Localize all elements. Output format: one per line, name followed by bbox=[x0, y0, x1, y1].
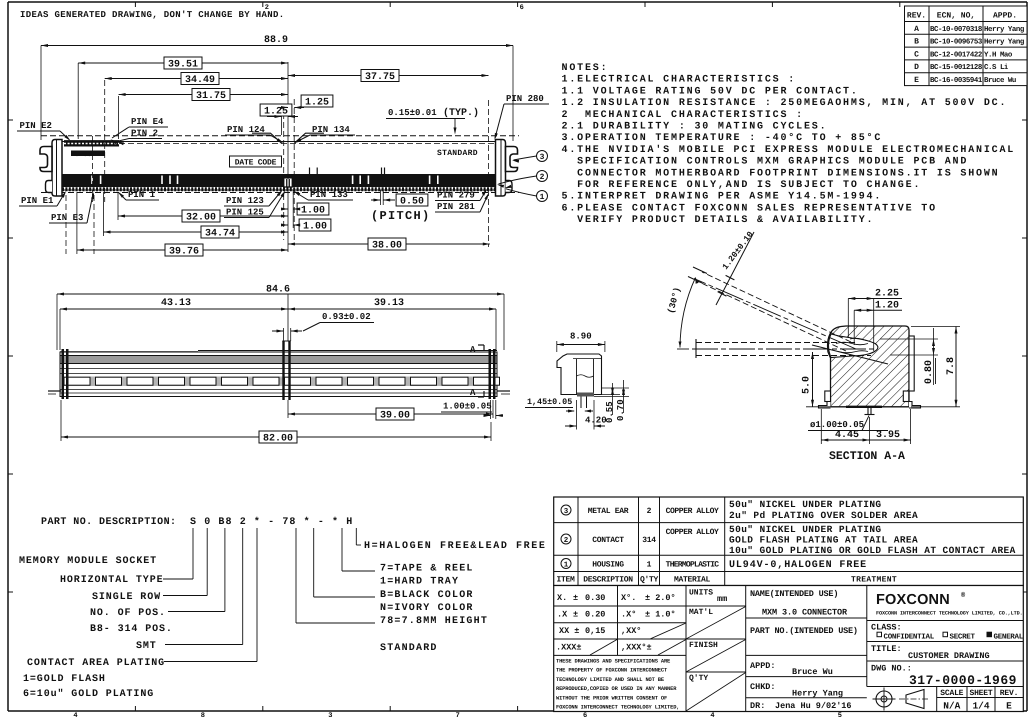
svg-text:FINISH: FINISH bbox=[689, 641, 718, 650]
svg-text:4: 4 bbox=[73, 712, 77, 717]
svg-text:Y.H Mao: Y.H Mao bbox=[984, 51, 1013, 59]
svg-text:314: 314 bbox=[642, 536, 656, 545]
svg-text:THESE DRAWINGS AND SPECIFICATI: THESE DRAWINGS AND SPECIFICATIONS ARE bbox=[556, 659, 671, 665]
projection symbols bbox=[876, 691, 892, 707]
end view: dim 0.70 bbox=[594, 396, 629, 398]
svg-text:ECN, NO,: ECN, NO, bbox=[937, 12, 975, 21]
svg-text:NOTES:: NOTES: bbox=[562, 63, 609, 74]
svg-text:ITEM: ITEM bbox=[556, 576, 575, 585]
svg-text:PIN E1: PIN E1 bbox=[21, 196, 54, 206]
svg-text:88.9: 88.9 bbox=[264, 35, 288, 46]
top view: dim 32.00 bbox=[117, 192, 119, 220]
svg-text:CONNECTOR MOTHERBOARD FOOTPRIN: CONNECTOR MOTHERBOARD FOOTPRINT DIMENSIO… bbox=[562, 168, 1000, 179]
svg-text:SCALE: SCALE bbox=[940, 689, 963, 698]
svg-text:SINGLE ROW: SINGLE ROW bbox=[92, 592, 161, 603]
svg-text:2.25: 2.25 bbox=[875, 289, 899, 300]
svg-text:GENERAL: GENERAL bbox=[994, 633, 1024, 642]
title block bbox=[554, 586, 1024, 712]
top view: dim 1.25 left bbox=[260, 104, 292, 116]
top view: connector body outline bbox=[62, 142, 496, 191]
svg-text:± 2.0°: ± 2.0° bbox=[645, 593, 676, 603]
section A-A: center solder pin bbox=[867, 407, 869, 415]
svg-text:37.75: 37.75 bbox=[365, 72, 395, 83]
svg-text:THERMOPLASTIC: THERMOPLASTIC bbox=[666, 561, 720, 570]
svg-text:MXM 3.0 CONNECTOR: MXM 3.0 CONNECTOR bbox=[762, 608, 848, 618]
svg-text:DATE CODE: DATE CODE bbox=[235, 159, 277, 168]
part legend leader: height bbox=[295, 528, 297, 623]
svg-text:HOUSING: HOUSING bbox=[592, 561, 624, 570]
svg-text:6: 6 bbox=[583, 712, 587, 717]
svg-text:PART NO.(INTENDED USE): PART NO.(INTENDED USE) bbox=[750, 626, 858, 636]
top view: dim 88.9 bbox=[40, 46, 42, 141]
svg-text:2: 2 bbox=[540, 173, 545, 182]
svg-text:FOXCONN: FOXCONN bbox=[876, 592, 950, 608]
svg-text:2: 2 bbox=[647, 507, 652, 516]
svg-text:Herry Yang: Herry Yang bbox=[984, 26, 1025, 34]
section A-A: dim 3.95 bbox=[910, 409, 912, 444]
svg-text:COPPER ALLOY: COPPER ALLOY bbox=[666, 528, 719, 537]
svg-text:1.00±0.05: 1.00±0.05 bbox=[443, 402, 492, 412]
svg-text:4.20: 4.20 bbox=[585, 416, 607, 426]
svg-text:3.95: 3.95 bbox=[876, 430, 900, 441]
svg-text:PIN 2: PIN 2 bbox=[131, 129, 158, 139]
section A-A: left foot bbox=[825, 391, 831, 402]
svg-text:IDEAS GENERATED DRAWING, DON'T: IDEAS GENERATED DRAWING, DON'T CHANGE BY… bbox=[20, 10, 285, 20]
units/matl/finish/qty column bbox=[745, 586, 747, 712]
section A-A: dim 2.25 bbox=[847, 299, 849, 339]
top view: centerline and dashed offsets bbox=[287, 62, 289, 252]
svg-text:Bruce Wu: Bruce Wu bbox=[984, 77, 1016, 85]
front view: top gray band bbox=[60, 356, 497, 364]
svg-text:50u" NICKEL UNDER PLATING: 50u" NICKEL UNDER PLATING bbox=[729, 499, 882, 510]
svg-text:CONFIDENTIAL: CONFIDENTIAL bbox=[884, 633, 935, 642]
svg-text:78=7.8MM HEIGHT: 78=7.8MM HEIGHT bbox=[380, 616, 488, 627]
svg-text:7: 7 bbox=[456, 712, 460, 717]
svg-text:2.1 DURABILITY : 30 MATING CYC: 2.1 DURABILITY : 30 MATING CYCLES. bbox=[562, 122, 828, 133]
svg-text:2: 2 bbox=[564, 536, 569, 545]
svg-text:mm: mm bbox=[717, 594, 727, 604]
svg-text:1: 1 bbox=[540, 193, 545, 202]
svg-text:BC-12-0017422: BC-12-0017422 bbox=[930, 51, 982, 59]
name / part no / appd cells bbox=[866, 586, 868, 687]
svg-text:REV.: REV. bbox=[907, 12, 926, 21]
svg-text:MEMORY MODULE SOCKET: MEMORY MODULE SOCKET bbox=[19, 556, 157, 567]
top view: dim 34.49 bbox=[105, 78, 288, 80]
svg-text:DWG NO.:: DWG NO.: bbox=[871, 664, 912, 674]
svg-text:3.OPERATION TEMPERATURE : -40°: 3.OPERATION TEMPERATURE : -40°C TO + 85°… bbox=[562, 133, 883, 144]
top view: lower dim 1.00 first bbox=[297, 203, 329, 215]
svg-text:WITHOUT THE PRIOR WRITTEN CONS: WITHOUT THE PRIOR WRITTEN CONSENT OF bbox=[556, 695, 667, 701]
front view: solder tails bbox=[48, 390, 61, 392]
svg-text:S 0 B8 2 * - 78 * - * H: S 0 B8 2 * - 78 * - * H bbox=[190, 516, 353, 528]
svg-text:3: 3 bbox=[328, 712, 332, 717]
svg-text:B8- 314 POS.: B8- 314 POS. bbox=[90, 624, 173, 635]
svg-text:SHEET: SHEET bbox=[969, 689, 992, 698]
svg-text:REV.: REV. bbox=[1000, 689, 1018, 698]
svg-text:.XXX±: .XXX± bbox=[556, 643, 582, 653]
svg-text:HORIZONTAL TYPE: HORIZONTAL TYPE bbox=[60, 575, 164, 586]
material table bbox=[554, 497, 1024, 586]
section A-A: right ear flange bbox=[909, 336, 914, 391]
top view: lower dim 1.00 second bbox=[299, 219, 331, 231]
top view: center key notch bbox=[284, 179, 292, 188]
top view: dim 1.25 right bbox=[301, 95, 333, 107]
top view: hidden PCB dashed lines bbox=[41, 135, 519, 137]
svg-text:TREATMENT: TREATMENT bbox=[851, 576, 897, 585]
front view: right end post bbox=[489, 349, 492, 399]
svg-text:E: E bbox=[1006, 701, 1012, 712]
svg-text:PIN E2: PIN E2 bbox=[20, 121, 52, 131]
svg-text:1.25: 1.25 bbox=[305, 97, 329, 108]
svg-text:1,45±0.05: 1,45±0.05 bbox=[527, 397, 572, 407]
svg-text:39.51: 39.51 bbox=[168, 59, 198, 70]
svg-text:VERIFY PRODUCT DETAILS & AVAIL: VERIFY PRODUCT DETAILS & AVAILABILITY. bbox=[562, 215, 875, 226]
front view: dim 39.00 bbox=[287, 400, 289, 418]
svg-text:0.50: 0.50 bbox=[400, 196, 424, 207]
svg-text:ø1.00±0.05: ø1.00±0.05 bbox=[810, 420, 864, 430]
front view: center key post bbox=[282, 341, 284, 400]
svg-text:39.00: 39.00 bbox=[380, 410, 410, 421]
svg-text:BC-16-0035941: BC-16-0035941 bbox=[930, 77, 983, 85]
front view: dim 39.13 bbox=[495, 309, 497, 350]
svg-text:UNITS: UNITS bbox=[689, 589, 713, 598]
front view: window strip bbox=[62, 377, 495, 387]
part legend leader: H bbox=[355, 528, 357, 545]
part legend leader: packing bbox=[341, 528, 343, 571]
svg-text:C: C bbox=[914, 50, 919, 59]
top view: right metal ear bbox=[496, 140, 506, 197]
svg-text:A: A bbox=[470, 388, 476, 398]
section A-A: hatched body bbox=[828, 326, 909, 407]
svg-text:1.ELECTRICAL CHARACTERISTICS :: 1.ELECTRICAL CHARACTERISTICS : bbox=[562, 75, 797, 86]
section A-A: 30 deg arc bbox=[680, 278, 696, 348]
svg-text:PIN 124: PIN 124 bbox=[227, 125, 265, 135]
section A-A: seated card solid line bbox=[812, 345, 888, 364]
section A-A: horizontal card dashed bbox=[696, 342, 857, 344]
svg-text:,XXX°±: ,XXX°± bbox=[621, 643, 652, 653]
end view: dim 4.20 bbox=[576, 400, 578, 430]
svg-text:NO. OF POS.: NO. OF POS. bbox=[90, 608, 166, 619]
svg-text:1.2 INSULATION RESISTANCE : 25: 1.2 INSULATION RESISTANCE : 250MEGAOHMS,… bbox=[562, 98, 1008, 109]
svg-text:Herry Yang: Herry Yang bbox=[984, 39, 1025, 47]
svg-text:PIN 134: PIN 134 bbox=[312, 125, 350, 135]
svg-text:0,15: 0,15 bbox=[585, 626, 605, 636]
svg-text:34.74: 34.74 bbox=[205, 228, 235, 239]
svg-text:31.75: 31.75 bbox=[196, 91, 226, 102]
svg-text:GOLD FLASH PLATING AT TAIL ARE: GOLD FLASH PLATING AT TAIL AREA bbox=[729, 535, 918, 546]
svg-text:1.00: 1.00 bbox=[301, 205, 325, 216]
svg-text:38.00: 38.00 bbox=[372, 240, 402, 251]
end view: dim 0.55 bbox=[602, 394, 621, 396]
svg-text:B: B bbox=[914, 38, 919, 47]
svg-text:PIN 1: PIN 1 bbox=[128, 190, 156, 200]
svg-text:1.20: 1.20 bbox=[875, 301, 899, 312]
svg-text:±: ± bbox=[573, 610, 578, 620]
svg-text:XX ±: XX ± bbox=[559, 626, 579, 636]
svg-text:Herry Yang: Herry Yang bbox=[792, 689, 843, 699]
svg-text:PIN E4: PIN E4 bbox=[131, 117, 164, 127]
top view: callout balloon 2 bbox=[537, 171, 548, 182]
svg-text:E: E bbox=[914, 76, 919, 85]
svg-text:34.49: 34.49 bbox=[185, 75, 215, 86]
svg-text:1.1 VOLTAGE RATING 50V DC PER: 1.1 VOLTAGE RATING 50V DC PER CONTACT. bbox=[562, 86, 859, 97]
svg-text:43.13: 43.13 bbox=[161, 298, 191, 309]
svg-text:CLASS:: CLASS: bbox=[871, 623, 902, 633]
top view: pin group ticks above band bbox=[309, 168, 311, 175]
section A-A: dim 0.80 bbox=[880, 338, 938, 340]
svg-text:6.PLEASE CONTACT FOXCONN SALES: 6.PLEASE CONTACT FOXCONN SALES REPRESENT… bbox=[562, 203, 937, 214]
scale sheet rev cells bbox=[936, 687, 938, 712]
svg-text:THE PROPERTY OF FOXCONN INTERC: THE PROPERTY OF FOXCONN INTERCONNECT bbox=[556, 668, 668, 674]
svg-text:BC-10-0096753: BC-10-0096753 bbox=[930, 39, 983, 47]
svg-text:N/A: N/A bbox=[943, 701, 960, 712]
svg-text:0.93±0.02: 0.93±0.02 bbox=[322, 312, 371, 322]
svg-text:1=HARD TRAY: 1=HARD TRAY bbox=[380, 577, 459, 588]
svg-text:B=BLACK COLOR: B=BLACK COLOR bbox=[380, 590, 474, 601]
section A-A: tilted card dashed bbox=[702, 272, 851, 342]
section A-A: dim 7.8 bbox=[911, 326, 960, 328]
svg-text:FOXCONN INTERCONNECT TECHNOLOG: FOXCONN INTERCONNECT TECHNOLOGY LIMITED, bbox=[556, 705, 679, 711]
top view: dim 38.00 bbox=[288, 243, 490, 245]
section A-A: bottom solder line bbox=[846, 406, 882, 408]
svg-text:APPD:: APPD: bbox=[750, 661, 776, 671]
svg-text:0.70: 0.70 bbox=[616, 399, 626, 421]
svg-text:317-0000-1969: 317-0000-1969 bbox=[909, 673, 1017, 688]
section A-A: dim 4.45 bbox=[820, 409, 822, 444]
svg-text:COPPER ALLOY: COPPER ALLOY bbox=[666, 507, 719, 516]
svg-text:0.80: 0.80 bbox=[924, 360, 935, 384]
svg-text:PIN 123: PIN 123 bbox=[226, 196, 264, 206]
section A-A: tilted card dim 1.20 bbox=[693, 267, 707, 274]
top view: left metal ear bbox=[52, 140, 62, 197]
svg-text:8: 8 bbox=[201, 712, 205, 717]
svg-text:BC-10-0070318: BC-10-0070318 bbox=[930, 26, 983, 34]
top view: DATE CODE box bbox=[230, 156, 282, 167]
end view: body outline bbox=[557, 354, 602, 395]
front view: dim 43.13 bbox=[59, 309, 61, 350]
top view: dim 39.76 bbox=[76, 192, 78, 254]
svg-text:APPD.: APPD. bbox=[993, 12, 1017, 21]
svg-text:Jena Hu 9/02'16: Jena Hu 9/02'16 bbox=[775, 701, 852, 711]
svg-text:1: 1 bbox=[564, 561, 569, 569]
svg-text:A: A bbox=[914, 25, 919, 34]
svg-text:STANDARD: STANDARD bbox=[380, 643, 438, 654]
top view: contact teeth fringe bbox=[62, 187, 496, 191]
svg-text:0.55: 0.55 bbox=[605, 401, 615, 423]
svg-text:5.INTERPRET DRAWING PER ASME Y: 5.INTERPRET DRAWING PER ASME Y14.5M-1994… bbox=[562, 192, 883, 203]
svg-text:7.8: 7.8 bbox=[946, 357, 957, 375]
end view: bottom pins bbox=[580, 397, 582, 409]
svg-text:32.00: 32.00 bbox=[186, 212, 216, 223]
svg-text:X.: X. bbox=[557, 593, 567, 603]
section A-A: card slot cavity bbox=[829, 334, 878, 358]
top view: center entry funnels bbox=[252, 133, 282, 143]
svg-text:MATERIAL: MATERIAL bbox=[674, 576, 711, 585]
svg-text:.X: .X bbox=[557, 610, 568, 620]
svg-text:PIN 280: PIN 280 bbox=[506, 94, 544, 104]
svg-text:Bruce Wu: Bruce Wu bbox=[792, 667, 833, 677]
svg-text:39.76: 39.76 bbox=[169, 246, 199, 257]
svg-text:8.90: 8.90 bbox=[570, 332, 592, 342]
svg-text:STANDARD: STANDARD bbox=[437, 149, 478, 158]
svg-text:CUSTOMER DRAWING: CUSTOMER DRAWING bbox=[908, 651, 990, 661]
svg-text:PIN 133: PIN 133 bbox=[310, 190, 348, 200]
front view: body outline bbox=[60, 352, 497, 397]
svg-text:SPECIFICATION CONTROLS MXM GRA: SPECIFICATION CONTROLS MXM GRAPHICS MODU… bbox=[562, 157, 969, 168]
svg-text:0.15±0.01: 0.15±0.01 bbox=[388, 108, 437, 118]
svg-text:PART NO. DESCRIPTION:: PART NO. DESCRIPTION: bbox=[41, 517, 176, 528]
top view: contact band bbox=[62, 174, 496, 187]
svg-text:D: D bbox=[914, 63, 919, 72]
svg-text:PIN E3: PIN E3 bbox=[51, 213, 83, 223]
front view: dim 84.6 bbox=[56, 294, 58, 350]
sheet border frame bbox=[8, 1, 1027, 3]
section A-A: right foot bbox=[903, 391, 909, 402]
svg-text:A: A bbox=[470, 345, 476, 355]
top view: dim 0.50 pitch bbox=[380, 190, 382, 205]
svg-text:SMT: SMT bbox=[136, 641, 157, 652]
end view: dim 8.90 bbox=[556, 341, 558, 352]
svg-text:1.00: 1.00 bbox=[303, 221, 327, 232]
svg-text:2u" Pd PLATING OVER SOLDER AR: 2u" Pd PLATING OVER SOLDER AREA bbox=[729, 510, 918, 521]
svg-text:,XX°: ,XX° bbox=[621, 626, 641, 636]
svg-text:0.20: 0.20 bbox=[585, 610, 605, 620]
part legend leader: color bbox=[313, 528, 315, 597]
svg-text:MAT'L: MAT'L bbox=[689, 608, 713, 617]
svg-text:84.6: 84.6 bbox=[266, 285, 290, 296]
top view: dim 31.75 bbox=[118, 96, 120, 139]
top view: dim 34.74 bbox=[103, 192, 105, 236]
top view: dim 37.75 bbox=[288, 75, 489, 77]
section A-A: dim 1.20 bbox=[853, 310, 855, 345]
svg-text:6=10u" GOLD PLATING: 6=10u" GOLD PLATING bbox=[23, 688, 154, 700]
svg-text:SECTION A-A: SECTION A-A bbox=[829, 450, 905, 463]
svg-text:FOR REFERENCE ONLY,AND IS SUBJ: FOR REFERENCE ONLY,AND IS SUBJECT TO CHA… bbox=[562, 180, 922, 191]
svg-text:PIN 281: PIN 281 bbox=[437, 202, 475, 212]
svg-text:1=GOLD FLASH: 1=GOLD FLASH bbox=[23, 674, 106, 685]
svg-text:Q'TY: Q'TY bbox=[689, 674, 708, 683]
svg-text:CONTACT AREA PLATING: CONTACT AREA PLATING bbox=[27, 658, 165, 669]
svg-text:Q'TY: Q'TY bbox=[640, 576, 659, 585]
top view: callout balloon 3 bbox=[537, 151, 548, 162]
revision table bbox=[905, 6, 1028, 86]
svg-text:REPRODUCED,COPIED OR USED IN A: REPRODUCED,COPIED OR USED IN ANY MANNER bbox=[556, 686, 677, 692]
svg-text:NAME(INTENDED USE): NAME(INTENDED USE) bbox=[750, 589, 838, 599]
svg-text:4: 4 bbox=[710, 712, 714, 717]
front view: dim 82.00 bbox=[60, 400, 62, 441]
svg-text:(TYP.): (TYP.) bbox=[443, 107, 479, 119]
svg-text:DR:: DR: bbox=[750, 701, 765, 711]
svg-text:39.13: 39.13 bbox=[374, 298, 404, 309]
svg-text:10u" GOLD PLATING OR GOLD FLAS: 10u" GOLD PLATING OR GOLD FLASH AT CONTA… bbox=[729, 545, 1016, 556]
svg-text:BC-15-0012128: BC-15-0012128 bbox=[930, 64, 983, 72]
svg-text:6: 6 bbox=[520, 4, 524, 12]
svg-text:CONTACT: CONTACT bbox=[592, 536, 624, 545]
svg-text:TECHNOLOGY LIMITED AND SHALL N: TECHNOLOGY LIMITED AND SHALL NOT BE bbox=[556, 677, 665, 683]
svg-text:1: 1 bbox=[647, 561, 652, 570]
svg-text:TITLE:: TITLE: bbox=[871, 644, 902, 654]
svg-text:SECRET: SECRET bbox=[950, 633, 976, 642]
svg-text:C.S Li: C.S Li bbox=[984, 63, 1009, 72]
svg-text:2 MECHANICAL CHARACTERISTICS: 2 MECHANICAL CHARACTERISTICS : bbox=[562, 110, 804, 121]
top view: callout balloon 1 bbox=[537, 191, 548, 202]
top view: dim 39.51 bbox=[77, 63, 79, 139]
svg-text:±: ± bbox=[573, 593, 578, 603]
svg-text:7=TAPE & REEL: 7=TAPE & REEL bbox=[380, 564, 474, 575]
svg-text:3: 3 bbox=[540, 153, 545, 162]
svg-text:± 1.0°: ± 1.0° bbox=[645, 610, 676, 620]
svg-text:.X°: .X° bbox=[621, 610, 636, 620]
svg-text:PIN 279: PIN 279 bbox=[437, 191, 475, 201]
svg-text:0.30: 0.30 bbox=[585, 593, 605, 603]
svg-text:FOXCONN INTERCONNECT TECHNOLOG: FOXCONN INTERCONNECT TECHNOLOGY LIMITED,… bbox=[876, 611, 1023, 617]
section A-A: contact bumps in slot bbox=[836, 342, 868, 345]
svg-text:UL94V-0,HALOGEN FREE: UL94V-0,HALOGEN FREE bbox=[729, 560, 867, 571]
svg-text:H=HALOGEN FREE&LEAD FREE: H=HALOGEN FREE&LEAD FREE bbox=[364, 541, 546, 552]
svg-text:DESCRIPTION: DESCRIPTION bbox=[583, 576, 633, 585]
svg-text:3: 3 bbox=[564, 507, 569, 516]
front view: left end post bbox=[62, 349, 65, 399]
svg-text:N=IVORY COLOR: N=IVORY COLOR bbox=[380, 603, 474, 614]
svg-text:(PITCH): (PITCH) bbox=[371, 209, 431, 223]
svg-text:METAL EAR: METAL EAR bbox=[588, 507, 629, 516]
tolerance grid bbox=[554, 605, 686, 607]
svg-text:4.45: 4.45 bbox=[835, 430, 859, 441]
svg-text:5: 5 bbox=[838, 712, 842, 717]
svg-text:X°.: X°. bbox=[621, 593, 636, 603]
svg-text:CHKD:: CHKD: bbox=[750, 682, 776, 692]
svg-text:4.THE NVIDIA'S MOBILE PCI EXPR: 4.THE NVIDIA'S MOBILE PCI EXPRESS MODULE… bbox=[562, 144, 1016, 156]
svg-text:50u" NICKEL UNDER PLATING: 50u" NICKEL UNDER PLATING bbox=[729, 524, 882, 535]
top view: E-pin extension stubs bbox=[65, 195, 67, 254]
svg-text:1/4: 1/4 bbox=[972, 701, 989, 712]
top view: band white separators bbox=[91, 176, 93, 185]
svg-text:5.0: 5.0 bbox=[802, 376, 813, 394]
top view: E-pin comb strip bbox=[64, 141, 119, 147]
section A-A: dim 5.0 bbox=[806, 406, 831, 408]
svg-text:82.00: 82.00 bbox=[263, 433, 293, 444]
